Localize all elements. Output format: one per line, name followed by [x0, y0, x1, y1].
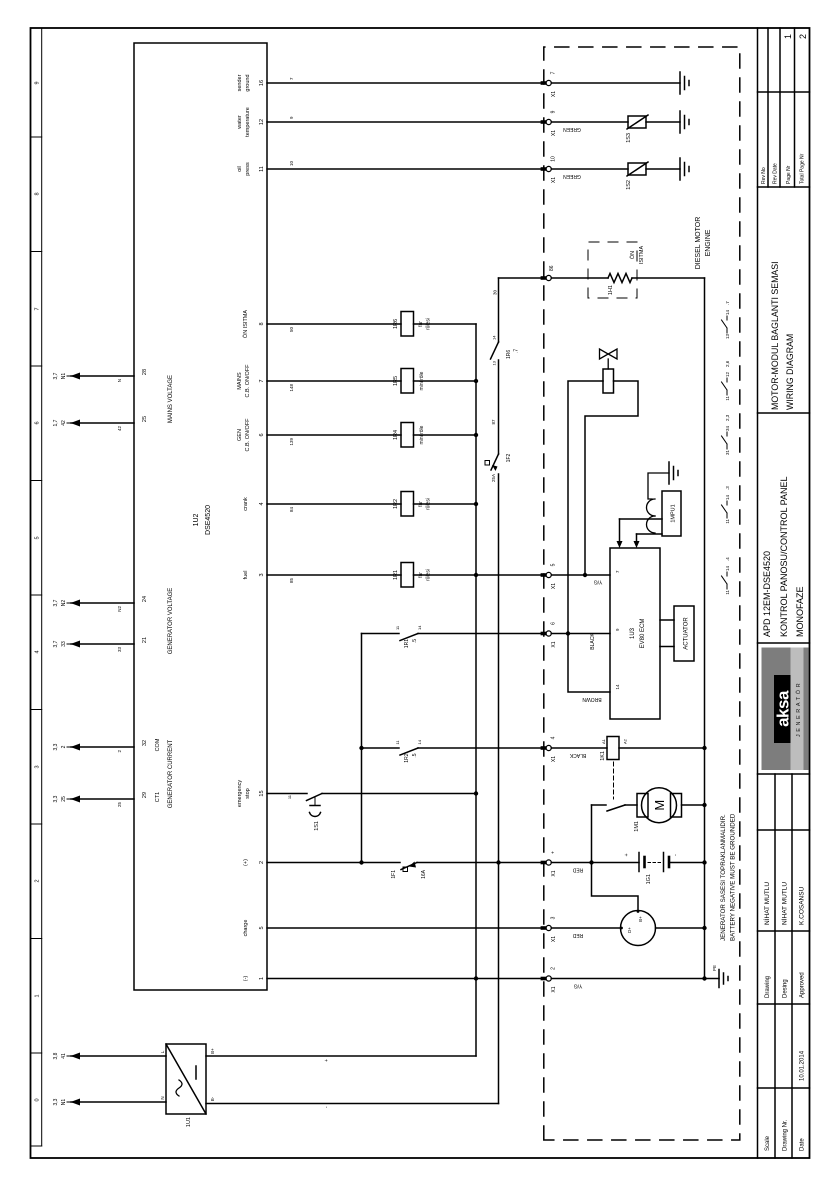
- svg-text:11: 11: [725, 519, 730, 524]
- wire: generator 33 to pin 21: [71, 643, 134, 645]
- svg-text:Rev No: Rev No: [761, 167, 767, 184]
- svg-text:87: 87: [491, 419, 496, 425]
- svg-text:NİHAT MUTLU: NİHAT MUTLU: [780, 882, 789, 925]
- wire: pin 6 GEN CB to relay coil 1R4: [267, 434, 401, 436]
- wire: pin 1 (-) down through minus bus to X1-2: [267, 978, 544, 980]
- svg-text:3: 3: [35, 765, 41, 768]
- wire: X1-7 to engine ground: [551, 82, 680, 84]
- temperature sensor 1S3: [626, 115, 648, 143]
- svg-text:X1: X1: [551, 936, 557, 942]
- svg-text:9: 9: [615, 628, 620, 631]
- svg-text:1R2: 1R2: [393, 499, 399, 509]
- terminal X1-3: [541, 916, 557, 942]
- svg-text:1R1: 1R1: [404, 639, 410, 648]
- svg-text:GREEN: GREEN: [563, 126, 581, 132]
- svg-text:14: 14: [417, 625, 422, 630]
- wire: coil 1R6 to minus bus: [414, 323, 477, 325]
- svg-text:7: 7: [289, 77, 294, 80]
- terminal X1-4: [541, 736, 557, 762]
- svg-text:29: 29: [142, 792, 148, 798]
- wire: X1-3 to alternator D+, label RED: [551, 927, 620, 929]
- ECM module 1U3 EV80: [610, 548, 660, 719]
- wire: X1-6 to ECM pin 9, label BLACK: [551, 633, 610, 635]
- terminal X1-5 (fuel column): [541, 563, 557, 589]
- relay coil 1R4: [393, 423, 425, 448]
- wire: pin 12 water temperature down to X1-9: [267, 121, 544, 123]
- svg-text:GREEN: GREEN: [563, 173, 581, 179]
- title block left labels: [765, 972, 806, 1151]
- drawing title cell: [770, 261, 795, 410]
- svg-text:B-: B-: [210, 1096, 215, 1101]
- svg-text:4: 4: [35, 650, 41, 653]
- zone numbers 0-9: [35, 81, 41, 1101]
- terminal X1-plus: [541, 851, 557, 877]
- svg-text:2,3: 2,3: [725, 414, 730, 421]
- wire: pin 8 ON ISITMA to relay coil 1R6: [267, 323, 401, 325]
- svg-text:B+: B+: [210, 1048, 215, 1054]
- svg-text:9: 9: [35, 81, 41, 84]
- wire: 1H1 down to engine minus bus: [632, 277, 705, 279]
- svg-text:Y/G: Y/G: [594, 579, 603, 585]
- svg-text:.7: .7: [725, 301, 730, 305]
- svg-text:M: M: [652, 800, 667, 811]
- svg-text:press: press: [245, 162, 251, 176]
- svg-text:14: 14: [492, 335, 497, 340]
- svg-text:14: 14: [725, 309, 730, 315]
- svg-text:11: 11: [259, 166, 265, 172]
- svg-text:-: -: [673, 854, 679, 856]
- svg-text:A1: A1: [601, 738, 606, 744]
- junction dot battery plus / starter feed: [589, 860, 593, 864]
- svg-text:ENGINE: ENGINE: [705, 229, 712, 256]
- wire: pin 11 oil press down to X1-10: [267, 168, 544, 170]
- heater resistor 1H1: [608, 274, 632, 296]
- svg-text:APD 12EM-DSE4520: APD 12EM-DSE4520: [762, 551, 772, 637]
- svg-text:ground: ground: [245, 74, 251, 91]
- svg-text:JENERATOR SASESI TOPRAKLANMALI: JENERATOR SASESI TOPRAKLANMALIDIR.: [720, 814, 727, 941]
- svg-text:2: 2: [551, 967, 557, 970]
- wire: alternator to engine minus bus: [656, 927, 705, 929]
- reference arrow 42 (mains): [53, 419, 122, 431]
- actuator: [674, 606, 694, 661]
- svg-text:Drawing Nr.: Drawing Nr.: [783, 1119, 789, 1151]
- wire: charger B- output to plus bus: [206, 1103, 499, 1105]
- wire: mains 41 into charger L: [71, 1055, 166, 1057]
- starter motor 1M1: [634, 788, 682, 832]
- terminal X1-2: [541, 967, 557, 993]
- svg-text:X1: X1: [551, 91, 557, 97]
- pickup shield ground wire: [648, 473, 669, 499]
- svg-text:1: 1: [259, 977, 265, 980]
- svg-text:N1: N1: [61, 1099, 67, 1106]
- svg-text:C.B. ON/OFF: C.B. ON/OFF: [245, 364, 251, 398]
- svg-text:7: 7: [35, 307, 41, 310]
- svg-text:1: 1: [783, 34, 793, 39]
- relay contact 1R2: [362, 739, 544, 762]
- junction dots on minus bus: [474, 379, 478, 981]
- junction dot black/brown: [566, 631, 570, 635]
- svg-text:3,3: 3,3: [53, 795, 59, 802]
- controller top pin numbers: [142, 369, 148, 798]
- plus bus (battery positive): [498, 278, 500, 1104]
- svg-text:BLACK: BLACK: [569, 752, 586, 758]
- svg-text:6: 6: [259, 433, 265, 436]
- wire: pin 7 MAINS CB to relay coil 1R5: [267, 380, 401, 382]
- wire: fuse 1F1 to X1-plus: [417, 862, 544, 864]
- svg-text:11: 11: [725, 590, 730, 595]
- svg-text:148: 148: [289, 384, 294, 392]
- wire: 1S2 to engine ground: [646, 168, 680, 170]
- svg-text:86: 86: [549, 265, 555, 271]
- svg-text:N2: N2: [61, 600, 67, 607]
- reference arrow 41: [53, 1052, 80, 1059]
- svg-text:MONOFAZE: MONOFAZE: [795, 586, 805, 637]
- svg-text:BATTERY NEGATIVE MUST BE GROUN: BATTERY NEGATIVE MUST BE GROUNDED: [730, 813, 737, 941]
- svg-text:X1: X1: [551, 641, 557, 647]
- svg-text:1R2: 1R2: [404, 753, 410, 762]
- wire: pin 4 crank to relay coil 1R2: [267, 503, 401, 505]
- engine ground (sender): [680, 72, 689, 94]
- svg-text:8: 8: [35, 192, 41, 195]
- svg-text:84: 84: [289, 507, 294, 513]
- wire: mains N1 to pin 28: [71, 375, 134, 377]
- wire: pin 15 emergency stop to switch 1S1: [267, 793, 307, 795]
- title block names: [762, 882, 806, 925]
- svg-text:stop: stop: [245, 788, 251, 798]
- svg-text:1MPU1: 1MPU1: [671, 504, 677, 522]
- svg-text:KONTROL PANOSU/CONTROL PANEL: KONTROL PANOSU/CONTROL PANEL: [779, 476, 789, 637]
- svg-text:ÖN: ÖN: [629, 251, 636, 259]
- wire: coil 1R1 through X1-5 to ECM pin 7: [414, 574, 611, 576]
- svg-text:(+): (+): [243, 859, 249, 866]
- wire: solenoid return staircase to fuel column: [585, 381, 638, 575]
- wire: X1-86 to heater 1H1: [551, 277, 608, 279]
- pickup coil arcs: [647, 499, 656, 533]
- svg-text:X1: X1: [551, 986, 557, 992]
- pickup wires into ECM: [617, 519, 663, 548]
- magnetic pickup 1MPU1: [662, 491, 681, 536]
- contact cross reference 1R5: [722, 360, 731, 400]
- svg-text:1M1: 1M1: [634, 821, 640, 832]
- svg-text:10: 10: [289, 160, 294, 166]
- svg-text:7: 7: [615, 570, 620, 573]
- wire: pin 5 charge down to X1-3: [267, 927, 544, 929]
- svg-text:50: 50: [289, 327, 294, 333]
- svg-text:15: 15: [259, 790, 265, 796]
- svg-text:A2: A2: [623, 738, 628, 744]
- svg-text:1H1: 1H1: [608, 285, 614, 295]
- wire: X1-4 to relay 1K1, label BLACK: [551, 747, 607, 749]
- svg-text:42: 42: [61, 420, 67, 426]
- controller bottom signal names: [237, 74, 251, 981]
- svg-text:aksa: aksa: [774, 690, 793, 727]
- controller bottom pin numbers: [259, 80, 265, 980]
- svg-text:B+: B+: [638, 916, 643, 922]
- svg-text:Scale: Scale: [765, 1135, 771, 1151]
- svg-text:ÖN ISITMA: ÖN ISITMA: [242, 310, 249, 338]
- wire: 1K1 coil to engine minus bus: [619, 747, 705, 749]
- svg-text:Desing: Desing: [783, 979, 789, 998]
- svg-text:K.COSANSU: K.COSANSU: [799, 886, 806, 925]
- svg-text:3: 3: [551, 916, 557, 919]
- aksa logo: [762, 648, 809, 771]
- glow plug dashed box ON ISITMA: [588, 242, 637, 298]
- starter contact 1K1: [592, 805, 638, 811]
- svg-text:8: 8: [259, 322, 265, 325]
- svg-text:fuel: fuel: [243, 571, 249, 580]
- contact cross reference 1R6: [722, 301, 731, 339]
- terminal X1-9: [541, 110, 557, 136]
- junction dot plus bus / battery feed: [496, 860, 500, 864]
- svg-text:139: 139: [289, 438, 294, 446]
- emergency stop button 1S1: [287, 794, 322, 831]
- svg-text:1R5: 1R5: [393, 376, 399, 386]
- svg-text:X1: X1: [551, 870, 557, 876]
- oil pressure sensor 1S2: [626, 162, 648, 190]
- svg-text:L: L: [160, 1050, 165, 1053]
- svg-text:10: 10: [551, 156, 557, 162]
- svg-text:EV80 ECM: EV80 ECM: [640, 619, 646, 649]
- svg-text:2,6: 2,6: [725, 360, 730, 367]
- svg-text:4: 4: [551, 736, 557, 739]
- svg-text:.7: .7: [514, 349, 520, 353]
- svg-text:13: 13: [725, 334, 730, 340]
- svg-text:MAINS VOLTAGE: MAINS VOLTAGE: [168, 375, 174, 423]
- wire: branch to ECM pin 14, label BROWN: [568, 634, 610, 693]
- svg-text:D+: D+: [627, 927, 632, 933]
- reference arrow 33: [53, 640, 122, 652]
- svg-text:Y/G: Y/G: [574, 983, 583, 989]
- svg-text:N1: N1: [61, 373, 67, 380]
- svg-text:C.B. ON/OFF: C.B. ON/OFF: [245, 418, 251, 452]
- svg-text:Rev Date: Rev Date: [773, 163, 779, 184]
- svg-text:X1: X1: [551, 756, 557, 762]
- svg-text:30: 30: [493, 290, 498, 296]
- wire: battery plus to starter contact (B+ path): [592, 805, 639, 911]
- engine minus bus: [704, 278, 706, 979]
- svg-text:Page Nr: Page Nr: [786, 165, 792, 184]
- svg-text:DSE4520: DSE4520: [205, 505, 212, 535]
- svg-text:3,7: 3,7: [53, 599, 59, 606]
- svg-text:1R6: 1R6: [393, 319, 399, 329]
- svg-text:.3: .3: [725, 486, 730, 490]
- fuse 1F1 16A: [391, 862, 427, 879]
- title block grid: [758, 28, 810, 1158]
- engine ground (1S3): [680, 111, 689, 133]
- svg-text:DIESEL MOTOR: DIESEL MOTOR: [695, 217, 702, 270]
- wire: coil 1R4 to minus bus: [414, 434, 477, 436]
- battery 1G1: [624, 853, 679, 885]
- relay coil 1R6: [393, 312, 432, 337]
- svg-text:4: 4: [259, 502, 265, 505]
- charger 1U1: [160, 1044, 215, 1127]
- svg-text:31: 31: [725, 450, 730, 456]
- svg-text:0: 0: [35, 1098, 41, 1101]
- contact cross reference 1R2: [722, 486, 731, 524]
- wire: pin 3 fuel to relay coil 1R1: [267, 574, 401, 576]
- svg-text:Approved: Approved: [800, 972, 806, 998]
- svg-text:14: 14: [725, 565, 730, 571]
- relay coil 1R5: [393, 369, 425, 394]
- starter relay coil 1K1: [600, 737, 628, 761]
- svg-text:3,7: 3,7: [53, 640, 59, 647]
- svg-text:32: 32: [142, 740, 148, 746]
- wire: 1S3 to engine ground: [646, 121, 680, 123]
- terminal X1-7: [541, 71, 557, 97]
- svg-text:12: 12: [725, 371, 730, 377]
- terminal X1-6: [541, 622, 557, 648]
- fuel shut-off valve: [600, 349, 618, 369]
- svg-text:oil: oil: [237, 166, 243, 172]
- svg-text:2: 2: [259, 861, 265, 864]
- svg-text:5: 5: [551, 563, 557, 566]
- mechanical linkage 1K1 to contact: [613, 762, 615, 799]
- wire: X1-9 to sensor 1S3, label GREEN: [551, 121, 628, 123]
- reference arrow N1 (charger): [53, 1098, 80, 1105]
- svg-text:6: 6: [551, 622, 557, 625]
- svg-text:NİHAT MUTLU: NİHAT MUTLU: [762, 882, 771, 925]
- svg-text:9: 9: [289, 116, 294, 119]
- junction dots on contact feed bus: [359, 860, 363, 864]
- breaker 1F2 on plus bus: [485, 453, 512, 482]
- svg-text:water: water: [237, 115, 243, 130]
- svg-text:14: 14: [417, 739, 422, 744]
- svg-text:33: 33: [117, 647, 122, 653]
- svg-text:1G1: 1G1: [646, 874, 652, 884]
- svg-text:10.01.2014: 10.01.2014: [800, 1050, 806, 1081]
- svg-text:1F1: 1F1: [391, 870, 397, 879]
- zone ruler strip (top): [31, 28, 42, 1146]
- svg-text:3: 3: [259, 573, 265, 576]
- relay coil 1R2: [393, 492, 432, 517]
- actuator wires: [660, 620, 674, 647]
- svg-text:5: 5: [35, 536, 41, 539]
- PE ground: [705, 965, 729, 988]
- svg-text:42: 42: [117, 426, 122, 432]
- svg-text:GENERATOR CURRENT: GENERATOR CURRENT: [168, 739, 174, 808]
- svg-text:WIRING DIAGRAM: WIRING DIAGRAM: [785, 334, 795, 410]
- wire: branch to fuel solenoid coil: [568, 381, 603, 634]
- svg-text:RED: RED: [572, 867, 583, 873]
- svg-text:11: 11: [287, 794, 292, 799]
- svg-text:1U2: 1U2: [193, 513, 200, 526]
- junction dot solenoid return: [583, 573, 587, 577]
- svg-text:GENERATOR VOLTAGE: GENERATOR VOLTAGE: [168, 588, 174, 655]
- svg-text:1S2: 1S2: [626, 180, 632, 190]
- svg-text:25: 25: [61, 796, 67, 802]
- svg-text:3,8: 3,8: [53, 1052, 59, 1059]
- reference arrow 2 (CT com): [53, 743, 122, 752]
- svg-text:Date: Date: [800, 1138, 806, 1151]
- svg-text:41: 41: [61, 1053, 67, 1059]
- fuel solenoid coil 1Y1: [603, 369, 614, 393]
- wire: mains N1 into charger N: [71, 1101, 166, 1103]
- relay coil 1R1: [393, 563, 432, 588]
- junction dots engine minus bus: [702, 746, 706, 981]
- svg-text:9: 9: [551, 110, 557, 113]
- svg-text:2: 2: [35, 879, 41, 882]
- svg-text:25: 25: [142, 416, 148, 422]
- svg-text:1R4: 1R4: [393, 430, 399, 440]
- wire: mains 42 to pin 25: [71, 422, 134, 424]
- diesel motor engine dashed boundary: [544, 47, 740, 1140]
- svg-text:BROWN: BROWN: [582, 696, 602, 702]
- reference arrow N1 (mains): [53, 372, 122, 382]
- svg-text:N: N: [160, 1096, 165, 1099]
- svg-text:X1: X1: [551, 583, 557, 589]
- svg-text:sender: sender: [237, 74, 243, 91]
- svg-text:BLACK: BLACK: [590, 633, 596, 650]
- svg-text:X1: X1: [551, 177, 557, 183]
- svg-text:Drawing: Drawing: [765, 976, 771, 998]
- svg-text:charge: charge: [243, 920, 249, 937]
- svg-text:.5: .5: [412, 639, 418, 643]
- wire: battery minus to engine minus bus: [669, 862, 705, 864]
- svg-text:7: 7: [551, 71, 557, 74]
- svg-text:N: N: [117, 379, 122, 382]
- relay contact 1R1: [362, 625, 544, 648]
- wire: starter motor to engine minus bus: [682, 804, 705, 806]
- svg-text:1K1: 1K1: [600, 751, 606, 761]
- svg-text:-: -: [324, 1106, 330, 1108]
- reference arrow N2: [53, 599, 122, 611]
- svg-text:11: 11: [725, 396, 730, 401]
- svg-text:.4: .4: [725, 557, 730, 561]
- revision/page cells: [761, 153, 806, 184]
- svg-text:GEN: GEN: [237, 429, 243, 441]
- svg-text:11: 11: [395, 625, 400, 630]
- svg-text:RED: RED: [572, 932, 583, 938]
- svg-text:ACTUATOR: ACTUATOR: [684, 617, 690, 650]
- svg-text:1U1: 1U1: [186, 1117, 192, 1127]
- svg-text:1R1: 1R1: [393, 570, 399, 580]
- controller module 1U2 DSE4520: [134, 43, 267, 990]
- svg-text:JENERATÖR: JENERATÖR: [795, 681, 802, 737]
- svg-text:emergency: emergency: [237, 780, 243, 807]
- reference arrow 25 (CT): [53, 795, 122, 807]
- wire: X1-2 to engine minus bus, label Y/G: [551, 978, 704, 980]
- svg-text:+: +: [324, 1059, 330, 1062]
- svg-text:1S3: 1S3: [626, 133, 632, 143]
- wire: charger B+ output to minus bus: [206, 1055, 476, 1057]
- svg-text:3,3: 3,3: [53, 743, 59, 750]
- svg-text:11: 11: [395, 740, 400, 745]
- svg-text:33: 33: [61, 641, 67, 647]
- svg-text:1,7: 1,7: [53, 419, 59, 426]
- svg-text:MAINS: MAINS: [237, 372, 243, 390]
- svg-text:28: 28: [142, 369, 148, 375]
- contact cross reference 1R1: [722, 557, 731, 595]
- svg-text:25A: 25A: [491, 474, 496, 482]
- charge alternator 1G2: [620, 910, 655, 945]
- svg-text:2: 2: [117, 750, 122, 753]
- svg-text:(-): (-): [243, 976, 249, 982]
- svg-text:+: +: [551, 851, 557, 854]
- svg-text:2: 2: [61, 745, 67, 748]
- svg-text:7: 7: [259, 379, 265, 382]
- svg-text:1: 1: [35, 994, 41, 997]
- svg-text:13: 13: [492, 360, 497, 365]
- svg-text:2: 2: [798, 34, 808, 39]
- svg-text:14: 14: [615, 684, 620, 690]
- wire: coil 1R5 to minus bus: [414, 380, 477, 382]
- svg-text:21: 21: [142, 637, 148, 643]
- svg-text:25: 25: [117, 802, 122, 808]
- svg-text:14: 14: [725, 494, 730, 500]
- svg-text:16A: 16A: [421, 869, 427, 879]
- wire: 1S1 to minus bus: [322, 793, 476, 795]
- wire: X1-10 to sensor 1S2, label GREEN: [551, 168, 628, 170]
